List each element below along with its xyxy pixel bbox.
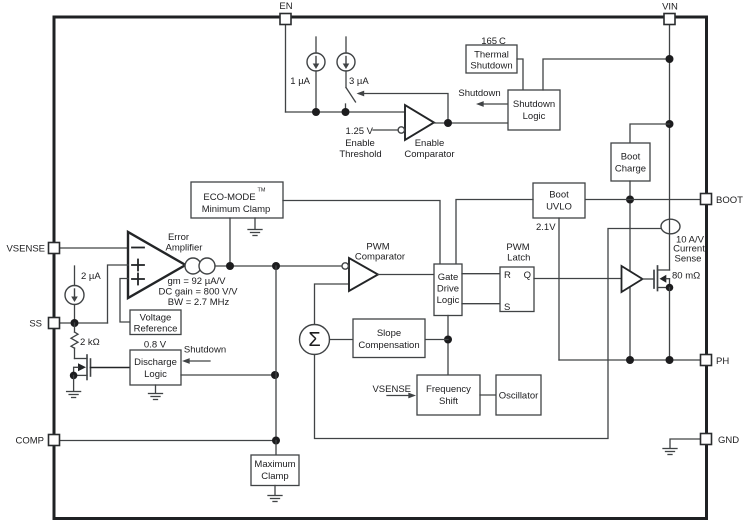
switch control arrow from shutdown net [359,94,448,124]
wire: sigma to PWM comparator input [315,284,350,325]
wire: gate drive to latch S [462,303,500,305]
node: discharge/comp dot [271,371,279,379]
current source I1 1uA stem top [315,37,317,53]
summing node sigma [300,325,330,355]
transistor Q2 discharge FET [87,355,91,380]
ground under Q2 [67,375,81,397]
block boot UVLO [533,183,585,218]
svg-text:Boot: Boot [621,152,641,163]
wire: gate drive to latch R [462,273,500,275]
svg-text:Reference: Reference [134,324,178,335]
wire: driver to FET gate [643,278,655,280]
wire: EN pin vertical down [285,24,287,112]
buffer driver triangle [622,266,643,292]
svg-text:ECO-MODE: ECO-MODE [203,192,255,203]
svg-text:Compensation: Compensation [358,340,419,351]
svg-text:Enable: Enable [345,138,375,149]
svg-text:Gate: Gate [438,272,459,283]
switch S1 bottom stub [345,104,347,112]
svg-text:Charge: Charge [615,164,646,175]
wire: sigma bottom to current sense [315,229,662,439]
wire: thermal shutdown to shutdown logic [517,59,523,90]
wire: error amp output down to COMP pin [275,266,277,441]
wire: boot charge top connection [630,124,670,143]
Q1 drain stub [658,269,670,271]
node: output/eco-mode dot [226,262,234,270]
bubble on comparator inverting input [398,127,404,133]
arrow into frequency shift [387,395,413,397]
svg-text:Logic: Logic [523,111,546,122]
switch S1 blade [346,88,356,103]
wire: error amp output to PWM comparator [215,265,342,267]
svg-text:VSENSE: VSENSE [6,244,45,255]
error amp minus sign [132,247,144,249]
Q2 source stub [74,374,87,376]
svg-text:Amplifier: Amplifier [166,243,203,254]
svg-text:VIN: VIN [662,2,678,13]
pin SS [49,318,60,329]
svg-text:Logic: Logic [144,369,167,380]
transistor Q1 power FET gate bar [653,271,655,289]
svg-text:PWM: PWM [506,242,529,253]
op-amp PWM comparator [349,258,378,291]
node: PH/FET source dot [666,356,674,364]
svg-text:Clamp: Clamp [261,471,288,482]
current sense ellipse [661,219,680,234]
svg-text:Voltage: Voltage [140,313,172,324]
current source I2 3uA stem top [345,37,347,53]
wire: voltage reference to error amp plus input [120,279,130,323]
wire: boot UVLO bottom to PH line [558,218,560,360]
svg-text:Minimum Clamp: Minimum Clamp [202,204,271,215]
svg-text:Threshold: Threshold [339,149,381,160]
block discharge logic [130,350,181,385]
wire: gate drive bottom to frequency shift [447,316,449,376]
svg-text:Error: Error [168,232,189,243]
svg-text:1 µA: 1 µA [290,76,310,87]
node: PH/boot charge dot [626,356,634,364]
pin VSENSE [49,243,60,254]
block oscillator [496,375,541,415]
block slope compensation [353,319,425,358]
block voltage reference [130,310,181,335]
node: VIN/shutdown logic dot [666,55,674,63]
svg-text:GND: GND [718,435,739,446]
pin BOOT [701,194,712,205]
svg-text:Frequency: Frequency [426,384,471,395]
svg-text:Enable: Enable [415,138,445,149]
Q1 source stub [658,287,670,289]
svg-text:Thermal: Thermal [474,50,509,61]
wire: PWM comparator output [378,274,434,276]
svg-text:VSENSE: VSENSE [372,384,411,395]
Q2 gate wire to discharge logic [91,367,131,369]
wire: stem to maximum clamp [275,441,277,456]
wire: discharge logic to comp node [181,374,275,376]
svg-text:Sense: Sense [675,254,702,265]
Q2 body arrow [78,363,86,371]
current source I1 1uA [307,53,325,71]
block gate drive logic [434,264,462,316]
wire: SS pin line [60,322,108,324]
resistor R1 2k zigzag [71,332,78,348]
svg-text:Oscillator: Oscillator [499,391,539,402]
wire: 1.25V reference into comparator [373,129,398,131]
svg-text:Σ: Σ [308,329,320,351]
svg-text:UVLO: UVLO [546,202,572,213]
ground under discharge logic [149,385,163,400]
ground under eco-mode clamp [248,218,262,236]
pin GND [701,434,712,445]
wire: Q1 source down to PH [669,288,671,361]
svg-text:Boot: Boot [549,190,569,201]
svg-text:Shutdown: Shutdown [458,88,500,99]
node: slope comp dot [444,336,452,344]
node: boot line dot [626,196,634,204]
svg-text:2.1V: 2.1V [536,222,556,233]
svg-text:2 kΩ: 2 kΩ [80,337,100,348]
block ECO-MODE minimum clamp [191,182,283,218]
wire: I2 to switch [345,71,347,88]
svg-text:COMP: COMP [16,436,45,447]
node: comparator output dot [444,119,452,127]
svg-text:3 µA: 3 µA [349,76,369,87]
block PWM latch [500,267,534,312]
arrow shutdown out of shutdown logic [480,103,507,105]
wire: COMP pin horizontal [60,440,277,442]
wire: slope comp to gate drive stem [425,339,448,341]
resistor R1 bottom lead [74,348,76,359]
wire: VIN vertical rail upper [669,24,671,270]
node: junction dot EN/I1 [312,108,320,116]
svg-text:gm = 92 µA/V: gm = 92 µA/V [167,276,226,287]
error amp plus sign 1 [132,264,144,266]
block thermal shutdown [466,45,517,73]
current source I3 2uA [65,286,84,305]
svg-text:Logic: Logic [437,295,460,306]
node: junction dot EN/switch [342,108,350,116]
wire: boot charge down to PH [629,181,631,360]
svg-text:Discharge: Discharge [134,357,177,368]
pin EN [280,14,291,25]
node: Q1 source dot [666,284,674,292]
block shutdown logic [508,90,560,130]
wire: PH line [559,359,701,361]
svg-text:Comparator: Comparator [404,149,454,160]
op-amp error amplifier U1 [128,232,186,298]
wire: EN node horizontal to enable comparator [286,111,406,113]
gm output circles [185,258,201,274]
wire: eco-mode bottom stem to error amp output [229,218,231,266]
block boot charge [611,143,650,181]
svg-text:PH: PH [716,356,729,367]
svg-text:Latch: Latch [507,253,530,264]
svg-text:Shutdown: Shutdown [184,345,226,356]
node: SS dot [71,319,79,327]
wire: frequency shift to oscillator [480,394,496,396]
pin PH [701,355,712,366]
svg-text:Q: Q [524,270,531,281]
svg-text:EN: EN [279,1,292,12]
node: COMP dot [272,437,280,445]
block frequency shift [417,375,480,415]
svg-text:1.25 V: 1.25 V [346,126,374,137]
error amp plus sign 2 [132,278,144,280]
wire: eco-mode right to gate drive logic [283,201,440,265]
wire: latch Q to driver [534,278,622,280]
wire: boot UVLO to BOOT pin [585,199,701,201]
svg-text:SS: SS [29,319,42,330]
Q2 drain stub [75,358,88,360]
svg-text:DC gain = 800 V/V: DC gain = 800 V/V [159,287,239,298]
svg-text:Maximum: Maximum [254,459,295,470]
svg-text:Shutdown: Shutdown [513,99,555,110]
svg-text:2 µA: 2 µA [81,271,101,282]
current source I1 stem bottom [315,71,317,112]
svg-text:Shutdown: Shutdown [470,61,512,72]
svg-text:Drive: Drive [437,284,459,295]
svg-text:R: R [504,270,511,281]
node: Q2 source dot [70,372,78,380]
svg-text:BW = 2.7 MHz: BW = 2.7 MHz [168,297,230,308]
svg-text:0.8 V: 0.8 V [144,340,167,351]
node: output/comp dot [272,262,280,270]
svg-text:S: S [504,302,510,313]
node: VIN/boot charge dot [666,120,674,128]
wire: boot UVLO left to gate drive logic [456,200,533,265]
Q1 body arrow [660,275,667,283]
wire: VSENSE pin to error amp [60,247,129,249]
current source I3 2uA stem [74,266,76,286]
svg-text:80 mΩ: 80 mΩ [672,271,700,282]
ground under maximum clamp [268,486,282,502]
wire: shutdown logic to VIN rail [543,59,670,90]
block maximum clamp [251,455,299,486]
resistor R1 2k top lead [74,323,76,332]
ground at GND pin [663,439,701,455]
pin VIN [664,14,675,25]
arrow shutdown into discharge logic [185,360,210,362]
op-amp enable comparator [405,105,434,140]
wire: sigma to slope compensation [330,339,354,341]
wire: SS to error amp plus input [108,265,129,323]
svg-text:BOOT: BOOT [716,195,743,206]
current source I2 3uA [337,53,355,71]
svg-text:TM: TM [258,188,266,194]
svg-text:Shift: Shift [439,396,458,407]
bubble on PWM comparator input [342,263,348,269]
svg-text:Comparator: Comparator [355,252,405,263]
svg-text:Slope: Slope [377,328,401,339]
wire: comparator output to shutdown logic [434,122,508,124]
current source I3 stem bottom [74,305,76,324]
Q1 channel bar [657,266,659,291]
pin COMP [49,435,60,446]
